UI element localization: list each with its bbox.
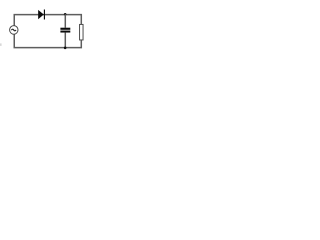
node junction dot bottom: [64, 47, 67, 50]
wire capacitor lower lead: [64, 33, 66, 48]
diode D1 triangle: [38, 10, 44, 19]
diode D1 cathode bar: [44, 10, 45, 20]
cropped label fragment left edge: [0, 43, 2, 46]
AC source V1 sine symbol: [11, 29, 16, 31]
wire loop lower: left rail lower, bottom rail, right rail lower: [14, 34, 81, 47]
node junction dot top: [64, 13, 67, 16]
AC source V1 circle: [10, 26, 18, 35]
capacitor C1 bottom plate: [60, 31, 70, 33]
resistor R1 box: [80, 24, 84, 40]
wire loop upper: left rail upper, top rail, right rail upper: [14, 15, 81, 26]
wire capacitor upper lead: [64, 14, 66, 27]
capacitor C1 top plate: [60, 28, 70, 30]
